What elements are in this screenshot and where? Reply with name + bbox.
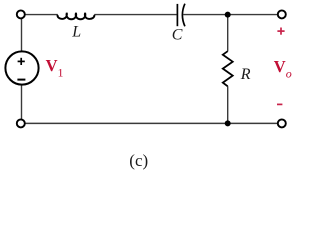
inductor L	[57, 13, 94, 19]
wire capacitor to node N1	[183, 14, 228, 16]
wire resistor to node N2	[227, 86, 229, 123]
svg-text:(c): (c)	[129, 151, 148, 170]
label - output polarity	[277, 103, 282, 105]
wire left rail upper	[21, 18, 23, 53]
terminal bottom-right	[278, 119, 286, 127]
wire left rail lower	[21, 85, 23, 121]
terminal top-left	[17, 10, 25, 18]
wire inductor to capacitor	[94, 14, 176, 16]
wire bottom right segment	[228, 122, 282, 124]
wire node N1 down to resistor	[227, 15, 229, 52]
terminal top-right	[278, 10, 286, 18]
svg-text:V1: V1	[46, 56, 64, 79]
capacitor C	[177, 4, 185, 27]
node N2 (bottom junction)	[225, 120, 231, 126]
terminal bottom-left	[17, 119, 25, 127]
svg-text:R: R	[240, 66, 251, 83]
voltage source V1	[5, 51, 38, 84]
wire node N1 to terminal B	[228, 14, 282, 16]
node N1 (top junction)	[225, 12, 231, 18]
svg-text:C: C	[172, 26, 183, 43]
wire top-left segment	[21, 14, 58, 16]
svg-text:Vo: Vo	[274, 57, 292, 80]
resistor R	[223, 51, 233, 86]
label + output polarity	[277, 28, 284, 35]
svg-text:L: L	[71, 23, 81, 40]
wire bottom left segment	[21, 122, 228, 124]
